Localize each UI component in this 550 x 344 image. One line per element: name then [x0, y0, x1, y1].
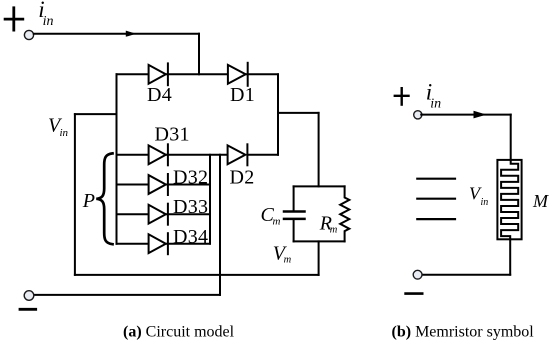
svg-text:D2: D2: [230, 167, 255, 189]
terminal circle top (b): [414, 111, 422, 119]
svg-text:(a) Circuit model: (a) Circuit model: [123, 324, 235, 341]
diode D1: [228, 63, 248, 86]
arrowhead i_in (b): [474, 111, 487, 119]
svg-text:in: in: [60, 127, 69, 139]
wire bridge right vertical: [277, 74, 279, 155]
svg-text:m: m: [284, 255, 292, 266]
svg-text:D32: D32: [173, 167, 208, 189]
svg-text:D33: D33: [173, 196, 208, 218]
label i_in (a): [38, 0, 53, 29]
wire output tap: [278, 112, 319, 114]
wire drop vertical to minus terminal: [219, 155, 221, 295]
wire Vin tap: [75, 113, 117, 115]
wire RC output drop: [318, 241, 320, 275]
wire stack right vertical: [209, 155, 211, 244]
wire bottom terminal (a): [34, 294, 220, 296]
diode D33: [149, 204, 168, 225]
svg-text:m: m: [273, 216, 281, 228]
wire bridge left vertical: [116, 74, 118, 243]
svg-text:M: M: [532, 191, 549, 211]
arrowhead i_in (a): [126, 31, 136, 37]
minus sign (b): [406, 292, 423, 295]
svg-text:m: m: [330, 225, 338, 236]
diode D32: [149, 174, 168, 195]
terminal circle bottom (b): [413, 270, 422, 279]
svg-text:P: P: [82, 190, 95, 212]
wire input top (a): [34, 33, 199, 35]
svg-text:D1: D1: [230, 84, 255, 106]
wire outer left vertical: [74, 114, 76, 275]
wire input drop (b): [510, 115, 512, 160]
wire D33 row: [117, 213, 211, 215]
wire D32 row: [117, 184, 211, 186]
wire RC box top: [294, 185, 345, 187]
wire output drop (b): [509, 239, 511, 274]
wire RC box bottom: [294, 240, 345, 242]
minus sign (a): [20, 308, 36, 311]
label V_in (a): [48, 115, 69, 140]
svg-text:D4: D4: [147, 84, 172, 106]
label i_in (b): [426, 79, 441, 111]
svg-text:in: in: [43, 14, 54, 29]
svg-text:D31: D31: [155, 124, 190, 146]
svg-text:in: in: [430, 97, 441, 112]
wire bottom (b): [422, 274, 510, 276]
diode D2: [228, 144, 248, 165]
wire D31 rail: [117, 154, 228, 156]
wire feed to RC: [318, 113, 320, 186]
svg-text:D34: D34: [173, 226, 208, 248]
wire D34 row: [117, 243, 211, 245]
capacitor Cm: [284, 186, 305, 241]
terminal circle top (a): [24, 30, 33, 39]
memristor meander: [501, 160, 518, 239]
svg-text:(b) Memristor symbol: (b) Memristor symbol: [392, 324, 535, 341]
diode D34: [149, 233, 168, 254]
terminal circle bottom (a): [24, 291, 34, 301]
resistor Rm: [340, 186, 349, 241]
voltage dashes (b): [417, 179, 455, 219]
label C_m: [261, 204, 281, 228]
diode D4: [149, 63, 168, 85]
wire input (b): [421, 114, 511, 116]
diode D31: [149, 144, 168, 165]
label V_m: [273, 243, 292, 266]
label R_m: [319, 213, 338, 236]
wire D2 to right node: [247, 154, 278, 156]
plus sign (a): [5, 8, 23, 30]
plus sign (b): [395, 88, 409, 104]
brace P: [96, 153, 112, 244]
label V_in (b): [469, 184, 488, 208]
wire top rail: [117, 73, 279, 75]
wire input drop (a): [198, 34, 200, 75]
wire outer bottom: [75, 274, 319, 276]
memristor M body: [497, 160, 521, 239]
svg-text:in: in: [481, 197, 489, 208]
